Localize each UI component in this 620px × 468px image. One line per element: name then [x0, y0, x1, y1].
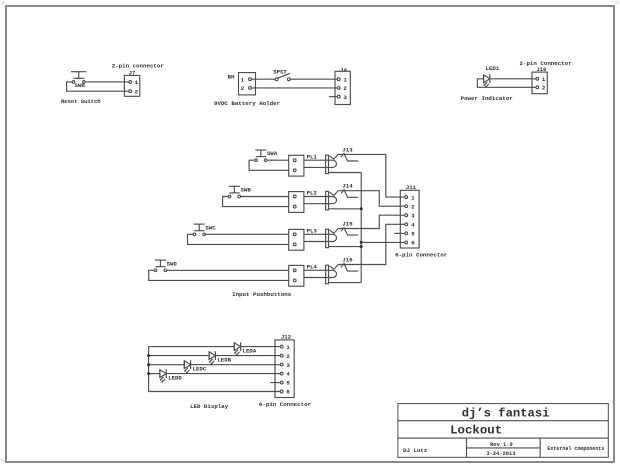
corner tick bottom-left [1, 459, 5, 463]
connector J4 designator [340, 67, 347, 74]
sleeve ground bus [360, 173, 362, 283]
svg-text:5: 5 [411, 231, 415, 238]
wire SWR right contact to J7 pin 1 [85, 81, 129, 83]
svg-text:PL4: PL4 [307, 263, 318, 270]
J4 pin 2 number [343, 85, 347, 92]
J4 pin 1 number [343, 76, 347, 83]
svg-text:J15: J15 [342, 221, 353, 228]
title block date 3-24-2013 [486, 451, 515, 457]
switch SWD (pushbutton) [154, 260, 177, 272]
LED LEDA [234, 342, 257, 356]
label PL3 [307, 227, 318, 234]
svg-text:2: 2 [343, 85, 347, 92]
svg-text:1: 1 [241, 76, 245, 83]
label Power Indicator [461, 95, 514, 102]
connector J4 [335, 71, 350, 104]
junction LEDD row [147, 372, 150, 375]
junction LEDC row [147, 363, 150, 366]
wire J12 pin5 stub [270, 382, 280, 384]
junction pin6 branch [360, 241, 363, 244]
label 9VDC Battery Holder [214, 100, 281, 107]
wire PL4 to jack J16 tip [304, 269, 329, 271]
svg-text:PL3: PL3 [307, 227, 318, 234]
svg-text:J16: J16 [342, 257, 353, 264]
connector PL4 [289, 265, 304, 286]
J11 pin numbers [411, 194, 415, 246]
connector J7 [124, 75, 139, 96]
wire LEDD to J12 pin4 [166, 373, 280, 375]
jack J15 NC contact [341, 228, 358, 236]
J4 pin 3 number [343, 94, 347, 101]
svg-text:4: 4 [411, 221, 415, 228]
label 6-pin Connector (J11) [395, 252, 448, 259]
J10 pin 2 number [542, 85, 546, 92]
wire jack J15 tip to J11 [338, 215, 405, 228]
label Input Pushbuttons [232, 291, 292, 298]
jack J14 NC contact [341, 190, 358, 198]
connector J10 [532, 72, 547, 94]
jack J16 NC contact [341, 264, 358, 272]
svg-text:6-pin Connector: 6-pin Connector [395, 252, 448, 259]
jack J16 plug tip [329, 270, 337, 277]
jack J14 sleeve bar [326, 191, 329, 210]
label LED1 [485, 65, 499, 72]
title text dj's fantasi [462, 407, 550, 421]
label 2-pin Connector (J10) [520, 60, 573, 67]
svg-text:dj’s fantasi: dj’s fantasi [462, 407, 550, 421]
jack J15 plug tip [329, 234, 337, 241]
battery holder BH box [239, 73, 256, 95]
connector PL1 [289, 155, 304, 176]
junction J15 sleeve [360, 245, 363, 248]
svg-text:1: 1 [135, 79, 139, 86]
wire LEDC to J12 pin3 [191, 364, 281, 366]
connector PL3 [289, 229, 304, 250]
svg-text:1: 1 [411, 194, 415, 201]
junction LEDB row [147, 354, 150, 357]
wire SWD left contact loop to PL4 pin2 [149, 270, 289, 280]
svg-text:SWR: SWR [75, 82, 86, 89]
BH pin 2 number [241, 85, 245, 92]
svg-text:4: 4 [286, 371, 290, 378]
wire SWB left contact loop to PL2 pin2 [223, 197, 289, 207]
jack J15 sleeve bar [326, 229, 329, 248]
LED LEDB [209, 351, 232, 365]
svg-text:2: 2 [241, 85, 245, 92]
connector J10 designator [537, 66, 547, 73]
svg-text:External components: External components [547, 446, 604, 452]
svg-text:BH: BH [228, 73, 235, 80]
svg-text:LEDC: LEDC [193, 366, 207, 373]
label LED Display [190, 403, 229, 410]
jack J13 tip contact [329, 154, 338, 159]
J7 pin 1 number [135, 79, 139, 86]
label SPST [273, 68, 287, 75]
J10 pin 1 number [542, 76, 546, 83]
LED LED1 [483, 74, 490, 88]
svg-text:2: 2 [135, 89, 139, 96]
connector J12 designator [281, 333, 292, 340]
wire jack J14 sleeve to ground bus [329, 208, 362, 210]
svg-text:9VDC Battery Holder: 9VDC Battery Holder [214, 100, 281, 107]
svg-text:J4: J4 [340, 67, 347, 74]
wire BH pin2 to J4 pin2 [251, 87, 337, 89]
jack J16 designator [342, 257, 353, 264]
svg-text:3: 3 [343, 94, 347, 101]
connector J7 designator [129, 70, 136, 77]
svg-text:6: 6 [411, 240, 415, 247]
svg-text:1: 1 [286, 344, 290, 351]
jack J13 plug tip [329, 160, 337, 167]
svg-text:1: 1 [542, 76, 546, 83]
label Reset Switch [61, 98, 101, 105]
label PL4 [307, 263, 318, 270]
BH pin 1 number [241, 76, 245, 83]
LED anode bus [148, 347, 150, 392]
wire SWB right contact to PL2 pin1 [241, 196, 289, 198]
jack J14 plug tip [329, 197, 337, 204]
wire PL2 to jack J14 tip [304, 196, 329, 198]
svg-text:Lockout: Lockout [450, 424, 502, 438]
svg-text:SWB: SWB [241, 187, 252, 194]
svg-text:2: 2 [542, 85, 546, 92]
svg-text:LEDA: LEDA [243, 348, 257, 355]
jack J14 tip contact [329, 191, 338, 196]
svg-text:LEDB: LEDB [217, 357, 231, 364]
wire SWR left contact loop to J7 pin 2 [67, 82, 129, 91]
jack J13 sleeve bar [326, 155, 329, 174]
svg-text:3-24-2013: 3-24-2013 [486, 451, 515, 457]
title block External components [547, 446, 604, 452]
svg-text:Input Pushbuttons: Input Pushbuttons [232, 291, 292, 298]
J12 pin numbers [286, 344, 290, 396]
label PL1 [307, 153, 318, 160]
wire SWA left contact loop to PL1 pin2 [249, 160, 289, 170]
jack J15 tip contact [329, 229, 338, 234]
svg-text:3: 3 [286, 362, 290, 369]
jack J13 designator [342, 146, 353, 153]
svg-text:SWA: SWA [267, 150, 278, 157]
svg-text:LED1: LED1 [485, 65, 499, 72]
wire LED1 anode loop to J10 pin2 [477, 79, 535, 88]
title block Rev 1.0 [490, 442, 513, 448]
wire bus to J11 pin6 [361, 241, 405, 243]
wire BH pin1 to SPST [251, 78, 275, 80]
wire jack J16 tip to J11 [338, 224, 405, 264]
wire bus to LEDB [149, 355, 210, 357]
svg-text:SWD: SWD [167, 260, 178, 267]
wire bus to LEDD [149, 373, 160, 375]
wire PL4 to jack J16 plug bottom [304, 277, 329, 279]
J7 pin 2 number [135, 89, 139, 96]
wire SPST to J4 pin1 [290, 78, 337, 80]
wire jack J13 tip to J11 [338, 154, 405, 197]
wire bus to LEDC [149, 364, 185, 366]
svg-text:1: 1 [343, 76, 347, 83]
wire PL3 to jack J15 tip [304, 233, 329, 235]
wire bus bottom to J12 pin6 [149, 391, 281, 393]
wire PL1 to jack J13 tip [304, 159, 329, 161]
svg-text:6: 6 [286, 389, 290, 396]
switch SWA (pushbutton) [255, 150, 278, 162]
svg-text:LEDD: LEDD [168, 375, 182, 382]
wire jack J15 sleeve to ground bus [329, 246, 362, 248]
svg-text:2-pin connector: 2-pin connector [112, 63, 165, 70]
svg-text:Rev 1.0: Rev 1.0 [490, 442, 513, 448]
switch SWB (pushbutton) [228, 186, 251, 198]
svg-text:SPST: SPST [273, 68, 287, 75]
wire SWC left contact loop to PL3 pin2 [188, 234, 289, 244]
svg-text:DJ Lutz: DJ Lutz [403, 447, 428, 454]
svg-text:3: 3 [411, 212, 415, 219]
svg-text:Power Indicator: Power Indicator [461, 95, 514, 102]
wire SWD right contact to PL4 pin1 [167, 269, 289, 271]
junction J14 sleeve [360, 207, 363, 210]
wire LEDB to J12 pin2 [215, 355, 280, 357]
connector J12 [275, 340, 294, 398]
wire jack J13 sleeve to ground bus [329, 172, 362, 174]
title block frame [398, 404, 608, 458]
wire jack J16 sleeve to ground bus [329, 282, 362, 284]
svg-text:J13: J13 [342, 146, 353, 153]
svg-text:PL1: PL1 [307, 153, 318, 160]
label BH [228, 73, 235, 80]
jack J13 NC contact [341, 154, 358, 162]
jack J15 designator [342, 221, 353, 228]
title block author DJ Lutz [403, 447, 428, 454]
wire LED1 cathode to J10 pin1 [491, 78, 536, 80]
svg-text:5: 5 [286, 380, 290, 387]
wire PL2 to jack J14 plug bottom [304, 203, 329, 205]
label 6-pin Connector (J12) [259, 401, 312, 408]
wire LEDA to J12 pin1 [241, 346, 281, 348]
wire PL3 to jack J15 plug bottom [304, 241, 329, 243]
svg-text:J14: J14 [342, 183, 353, 190]
wire SWC right contact to PL3 pin1 [205, 233, 288, 235]
LED LEDD [160, 369, 183, 383]
label PL2 [307, 190, 318, 197]
wire J11 pin5 stub [394, 232, 405, 234]
svg-text:SWC: SWC [205, 224, 216, 231]
svg-text:LED Display: LED Display [190, 403, 229, 410]
wire bus to LEDA [149, 346, 235, 348]
wire SWA right contact to PL1 pin1 [267, 159, 289, 161]
title text Lockout [450, 424, 502, 438]
wire PL1 to jack J13 plug bottom [304, 166, 329, 168]
svg-text:2: 2 [286, 353, 290, 360]
connector J11 designator [406, 184, 417, 191]
wire jack J14 tip to J11 [338, 191, 405, 207]
label 2-pin connector [112, 63, 165, 70]
corner tick top-right [616, 1, 620, 5]
svg-text:PL2: PL2 [307, 190, 318, 197]
jack J16 sleeve bar [326, 265, 329, 284]
switch SWR (reset pushbutton) [71, 72, 86, 89]
jack J14 designator [342, 183, 353, 190]
svg-text:2: 2 [411, 203, 415, 210]
svg-text:Reset Switch: Reset Switch [61, 98, 101, 105]
switch SWC (pushbutton) [193, 224, 216, 236]
jack J16 tip contact [329, 265, 338, 270]
connector J11 [400, 190, 419, 248]
svg-text:6-pin Connector: 6-pin Connector [259, 401, 312, 408]
LED LEDC [184, 360, 207, 374]
connector PL2 [289, 192, 304, 213]
switch SPST [275, 73, 290, 80]
wire J4 pin 3 stub [329, 96, 337, 98]
corner tick top-left [1, 1, 5, 5]
